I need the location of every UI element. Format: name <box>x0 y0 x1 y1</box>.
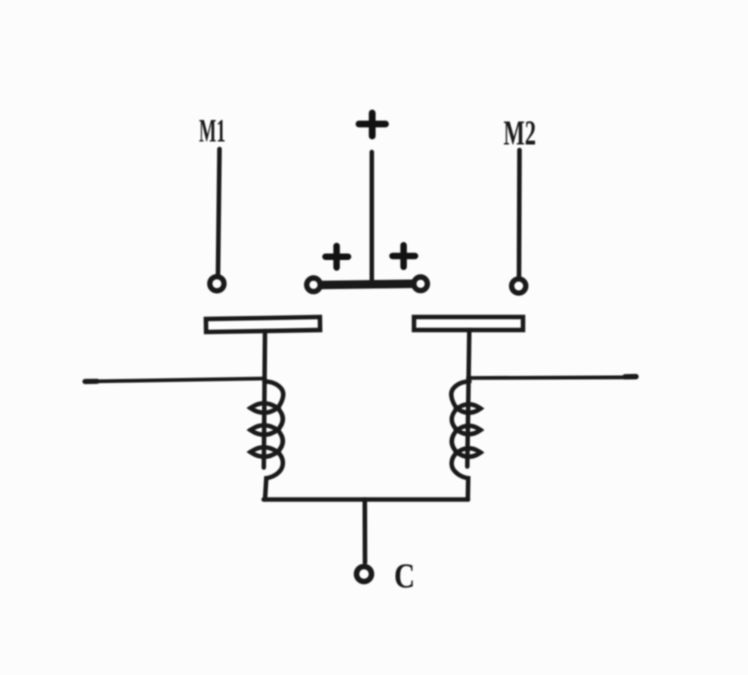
terminal M1 <box>210 277 224 291</box>
wire left feed end nib <box>85 379 97 384</box>
label + right contact polarity <box>393 245 416 266</box>
svg-text:M1: M1 <box>199 114 226 150</box>
wire bottom bus <box>264 497 468 502</box>
svg-text:C: C <box>394 558 415 596</box>
wire right feed <box>468 375 636 380</box>
node bar right end <box>414 277 428 291</box>
wire C lead <box>362 500 367 563</box>
wire left feed <box>85 379 265 382</box>
contact plate left <box>206 317 320 332</box>
wire left plate stem <box>264 331 265 468</box>
wire M1 lead <box>218 149 220 274</box>
label + left contact polarity <box>326 246 349 268</box>
terminal C <box>357 567 372 582</box>
terminal M2 <box>512 279 526 293</box>
coil L1 <box>250 382 283 500</box>
label + supply <box>359 113 386 136</box>
svg-text:M2: M2 <box>504 114 537 153</box>
wire supply lead <box>370 152 375 281</box>
wire right plate stem <box>467 330 469 467</box>
wire M2 lead <box>517 150 522 277</box>
node bar left end <box>307 278 321 292</box>
contact plate right <box>414 317 523 330</box>
movable contact bar <box>319 284 415 285</box>
coil L2 <box>451 382 480 500</box>
wire right feed end nib <box>625 374 636 380</box>
